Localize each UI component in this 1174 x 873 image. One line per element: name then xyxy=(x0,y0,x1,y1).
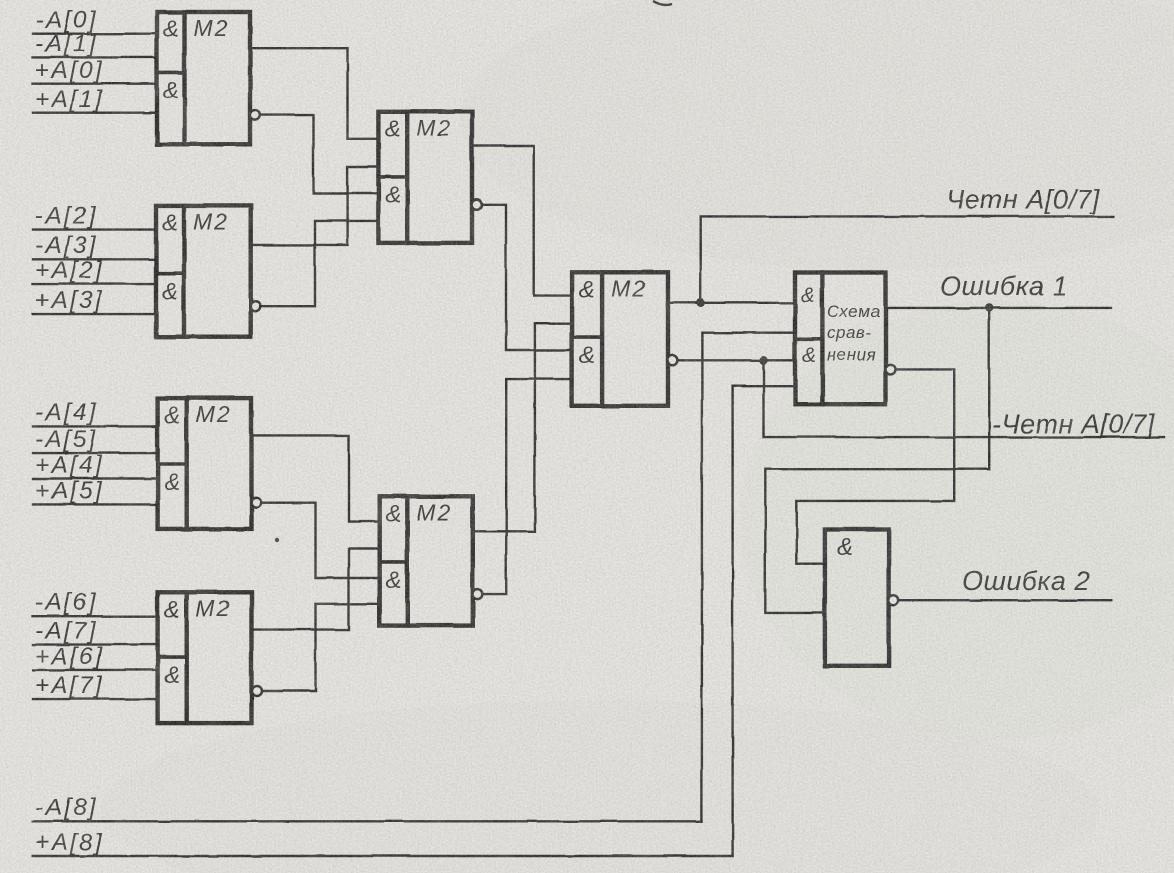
wire -A[4] input line xyxy=(33,425,158,427)
wire U3 top output to U6 input 1 xyxy=(472,146,572,296)
wire +A[2] input line xyxy=(33,283,156,285)
junction node Chetn branch xyxy=(697,299,705,307)
gate U8 AND element xyxy=(825,530,889,666)
wire U1 inverted output to U3 input 3 xyxy=(259,115,378,193)
wire U3 inverted output to U6 input 3 xyxy=(481,205,572,350)
U8 inversion bubble xyxy=(888,595,898,605)
U6 inversion bubble xyxy=(667,355,677,365)
wire U4 inverted output to U5 input 3 xyxy=(261,503,380,578)
wire -A[1] input line xyxy=(33,56,157,58)
gate U6 parity element M2 (third level) xyxy=(572,272,668,406)
wire +A[3] input line xyxy=(33,313,156,315)
gate U4 parity element M2 (A4,A5) xyxy=(158,398,252,529)
wire -A[7] input line xyxy=(33,643,158,645)
wire Oshibka 1 branch to U8 input 2 xyxy=(765,308,989,613)
wire -A[8] input line to U7 input 2 xyxy=(33,333,795,822)
U5 inversion bubble xyxy=(472,589,482,599)
wire -A[2] input line xyxy=(33,228,156,230)
U3 inversion bubble xyxy=(472,200,482,210)
wire +A[0] input line xyxy=(33,82,157,84)
wire branch to Chetn A[0/7] output line xyxy=(701,216,1114,302)
wire U2 top output to U3 input 2 xyxy=(251,167,379,245)
wire U1 top output to U3 input 1 xyxy=(250,48,378,139)
wire U8 output Oshibka 2 line xyxy=(898,599,1112,601)
gate U2 parity element M2 (A2,A3) xyxy=(156,205,251,336)
wire U5 inverted output to U6 input 4 xyxy=(482,379,572,594)
wire U5 top output to U6 input 2 xyxy=(473,323,572,531)
wire +A[4] input line xyxy=(33,477,158,479)
wire -A[0] input line xyxy=(33,33,157,35)
gate U7 comparison circuit (Схема сравнения) xyxy=(795,273,886,405)
wire -A[3] input line xyxy=(33,258,156,260)
wire U7 inverted output to U8 input 1 xyxy=(797,369,954,563)
gate U1 parity element M2 (A0,A1) xyxy=(157,12,250,144)
wire -A[5] input line xyxy=(33,452,158,454)
wire U2 inverted output to U3 input 4 xyxy=(260,221,379,306)
wire -A[6] input line xyxy=(33,615,158,617)
U2 inversion bubble xyxy=(250,301,260,311)
gate U3 parity element M2 (second level upper) xyxy=(378,111,472,243)
wire U6 top output to U7 input 1 xyxy=(668,302,795,304)
wire +A[7] input line xyxy=(33,698,158,700)
junction node -Chetn branch xyxy=(759,356,767,364)
wire U6 inverted output to U7 input 3 xyxy=(677,359,795,361)
gate U5 parity element M2 (second level lower) xyxy=(380,496,473,625)
wire branch to -Chetn A[0/7] output line xyxy=(764,360,1165,437)
junction node Oshibka 1 branch xyxy=(985,304,993,312)
wire +A[5] input line xyxy=(33,503,158,505)
wire U4 top output to U5 input 1 xyxy=(252,435,380,521)
stray pen mark top xyxy=(653,1,672,5)
ink speck xyxy=(275,538,279,542)
wire +A[1] input line xyxy=(33,111,157,113)
wire U7 output Oshibka 1 line xyxy=(886,307,1112,309)
U4b inversion bubble xyxy=(252,686,262,696)
U4 inversion bubble xyxy=(251,498,261,508)
gate U4b parity element M2 (A6,A7) xyxy=(158,592,252,723)
wire +A[8] input line to U7 input 4 xyxy=(33,386,795,856)
wire +A[6] input line xyxy=(33,669,158,671)
wire U4b inverted output to U5 input 4 xyxy=(262,604,380,691)
U1 inversion bubble xyxy=(250,110,260,120)
U7 inversion bubble xyxy=(885,364,895,374)
wire U4b top output to U5 input 2 xyxy=(252,549,380,630)
